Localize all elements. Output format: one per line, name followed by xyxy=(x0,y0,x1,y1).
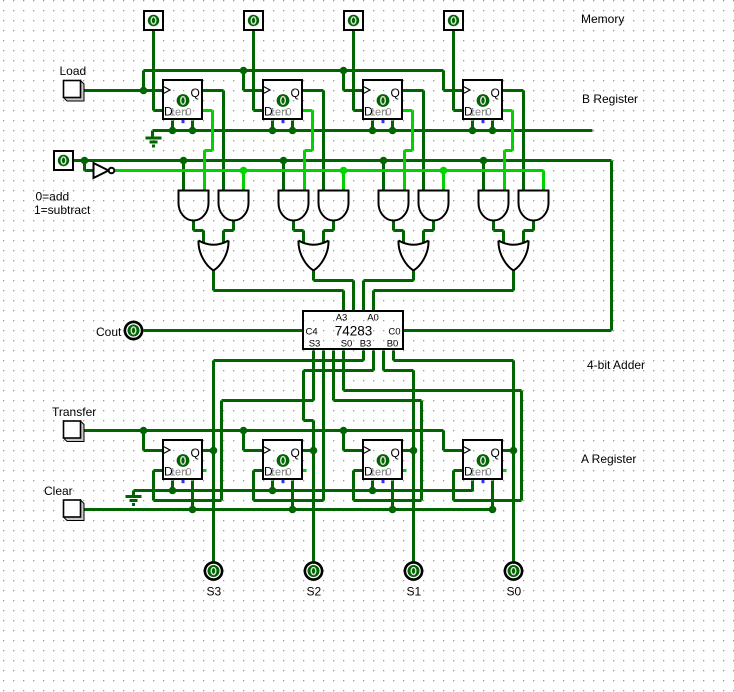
svg-text:Transfer: Transfer xyxy=(52,405,96,419)
svg-text:0: 0 xyxy=(486,467,492,479)
svg-text:Q: Q xyxy=(391,86,400,100)
svg-text:Q: Q xyxy=(291,446,300,460)
svg-text:74283: 74283 xyxy=(335,324,373,339)
svg-text:1=subtract: 1=subtract xyxy=(34,203,91,217)
svg-text:S0: S0 xyxy=(507,585,522,599)
svg-text:Q: Q xyxy=(191,446,200,460)
svg-text:0: 0 xyxy=(386,107,392,119)
svg-text:Q: Q xyxy=(491,86,500,100)
svg-text:B3: B3 xyxy=(360,339,372,350)
svg-text:S3: S3 xyxy=(309,339,321,350)
svg-text:Load: Load xyxy=(60,64,87,78)
svg-text:Memory: Memory xyxy=(581,12,624,26)
svg-text:A3: A3 xyxy=(336,313,348,324)
svg-text:Q: Q xyxy=(491,446,500,460)
svg-text:0=add: 0=add xyxy=(36,190,70,204)
svg-text:S1: S1 xyxy=(407,585,422,599)
svg-text:B0: B0 xyxy=(387,339,399,350)
svg-text:0: 0 xyxy=(386,467,392,479)
svg-text:B Register: B Register xyxy=(582,92,638,106)
svg-text:C4: C4 xyxy=(306,327,318,338)
svg-text:0: 0 xyxy=(186,467,192,479)
svg-text:0: 0 xyxy=(286,467,292,479)
svg-text:4-bit Adder: 4-bit Adder xyxy=(587,358,645,372)
svg-text:0: 0 xyxy=(486,107,492,119)
svg-text:C0: C0 xyxy=(388,327,400,338)
svg-text:0: 0 xyxy=(286,107,292,119)
svg-text:0: 0 xyxy=(186,107,192,119)
svg-text:S3: S3 xyxy=(207,585,222,599)
svg-text:Clear: Clear xyxy=(44,484,73,498)
svg-text:S0: S0 xyxy=(341,339,353,350)
svg-text:S2: S2 xyxy=(307,585,322,599)
svg-text:Cout: Cout xyxy=(96,325,122,339)
svg-text:A0: A0 xyxy=(367,313,379,324)
svg-text:Q: Q xyxy=(391,446,400,460)
svg-text:A Register: A Register xyxy=(581,452,636,466)
svg-text:Q: Q xyxy=(191,86,200,100)
svg-text:Q: Q xyxy=(291,86,300,100)
